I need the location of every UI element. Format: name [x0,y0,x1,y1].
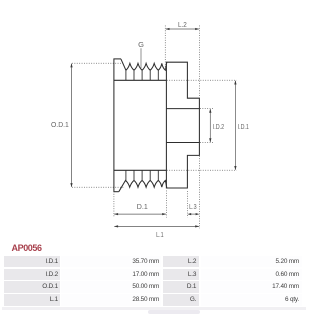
dimension D.1 line [114,213,166,215]
groove root stubs bottom [126,170,158,180]
row 1 cell 35.70 mm [61,256,161,268]
scrollbar thumb [148,310,200,314]
dimension I.D.1 line [234,80,236,170]
hub nose outline (section view) [166,62,199,188]
dimension L.2 line [165,28,199,30]
bore line bottom [166,142,199,144]
svg-text:L.3: L.3 [189,202,197,211]
dimension O.D.1 label [51,120,69,129]
bore line top [166,108,199,110]
svg-text:D.1: D.1 [137,202,148,211]
svg-text:L.2: L.2 [178,20,187,29]
dimension L.2/L.1 extension dotted right [198,26,200,229]
dimension I.D.2 extension dotted [200,109,214,143]
svg-text:O.D.1: O.D.1 [51,120,69,129]
row 2 cell 17.00 mm [61,269,161,281]
svg-text:G: G [138,40,144,49]
dimension I.D.2 line [209,109,211,143]
groove root stubs top [126,70,158,80]
dimension O.D.1 line [70,63,72,187]
row 4 cell 6 qty. [201,294,302,306]
dimension L.2 extension dotted left [164,26,166,72]
dimension D.1 extension dotted [114,191,166,218]
pulley body line bottom [114,169,166,171]
svg-text:I.D.1: I.D.1 [238,122,249,131]
row 4 cell 28.50 mm [61,294,161,306]
pulley body line top [114,79,166,81]
svg-text:I.D.2: I.D.2 [213,122,225,131]
row 3 cell O.D.1 [4,281,60,293]
footer light band [2,307,306,310]
row 2 cell I.D.2 [4,269,60,281]
row 1 cell I.D.1 [4,256,60,268]
leader line G [140,48,142,68]
pulley ribs top zigzag [121,59,167,70]
dimension O.D.1 extension dotted bottom [72,186,125,188]
dimension O.D.1 extension dotted top [72,62,125,64]
technical drawing of pulley AP0056 [0,0,307,243]
product code AP0056 [12,244,42,254]
dimension L.3 arrows [187,213,199,215]
pulley side view: left face and flange [114,59,122,193]
row 4 cell G. [163,294,200,306]
row 1 cell 5.20 mm [201,256,302,268]
row 4 cell L.1 [4,294,60,306]
svg-text:L.1: L.1 [156,230,164,239]
row 2 cell 0.60 mm [201,269,302,281]
dimension I.D.1 extension dotted [167,80,237,170]
row 2 cell L.3 [163,269,200,281]
row 1 cell L.2 [163,256,200,268]
row 3 cell D.1 [163,281,200,293]
dimension L.3 extension dotted [186,191,188,218]
dimension L.1 line [114,225,199,227]
row 3 cell 17.40 mm [201,281,302,293]
row 3 cell 50.00 mm [61,281,161,293]
pulley ribs bottom zigzag [119,180,167,191]
